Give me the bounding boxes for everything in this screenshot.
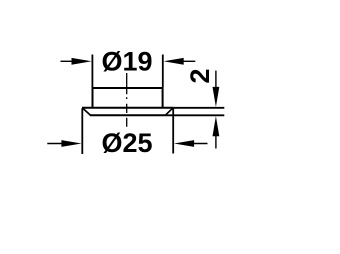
dim 2 lower arrowhead (pointing up): [213, 116, 220, 136]
dim Ø25 left arrowhead: [61, 140, 81, 147]
dim Ø25 left extension line: [81, 109, 83, 155]
dim 2 upper leader line: [215, 71, 217, 90]
dim Ø19 left leader line: [61, 60, 76, 62]
dim Ø19 right extension line: [162, 55, 164, 88]
dim Ø25 left leader line: [47, 143, 64, 145]
svg-text:2: 2: [185, 68, 215, 83]
dim 2 upper extension line (flange top, extended right): [173, 107, 224, 109]
flange left chamfer: [82, 108, 90, 116]
dim Ø25 right leader line: [190, 143, 208, 145]
flange top edge (Ø25 rim): [82, 107, 173, 109]
dim 2 lower extension line (flange bottom, extended right): [166, 114, 225, 116]
dim Ø19 right arrowhead: [164, 58, 184, 65]
part body top edge: [92, 87, 164, 89]
svg-text:Ø19: Ø19: [101, 47, 152, 77]
flange bottom edge: [90, 114, 166, 116]
svg-text:Ø25: Ø25: [101, 128, 152, 158]
part body (cylinder Ø19) left edge: [92, 88, 94, 108]
dim Ø19 left extension line: [91, 55, 93, 88]
dim Ø25 right arrowhead: [174, 140, 194, 147]
flange right chamfer: [165, 108, 173, 116]
part body right edge: [162, 88, 164, 108]
dim Ø25 right extension line: [172, 109, 174, 154]
dim 2 lower leader line: [215, 133, 217, 149]
dim Ø19 left arrowhead: [72, 58, 92, 65]
dim Ø19 right leader line: [180, 60, 195, 62]
dim 2 upper arrowhead (pointing down): [213, 87, 220, 107]
center line (vertical dash-dot axis): [126, 73, 128, 127]
